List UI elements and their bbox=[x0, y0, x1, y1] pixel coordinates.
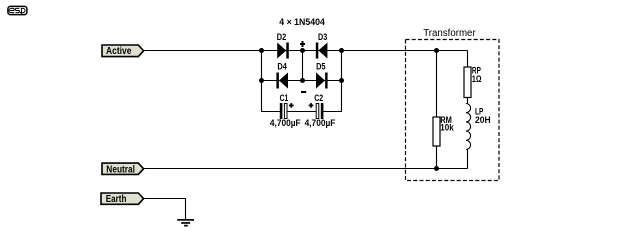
junction row2-right (D5 cathode) bbox=[339, 78, 344, 83]
wire mid vertical bbox=[302, 51, 304, 81]
junction RM top (active rail) bbox=[434, 48, 439, 53]
diode D3 bbox=[316, 32, 328, 59]
svg-text:Neutral: Neutral bbox=[106, 164, 135, 175]
diode D5 bbox=[316, 62, 328, 89]
transformer dashed box bbox=[406, 40, 500, 181]
node minus bbox=[301, 91, 306, 93]
svg-text:Earth: Earth bbox=[106, 194, 127, 205]
inductor LP bbox=[466, 98, 491, 169]
svg-text:D4: D4 bbox=[277, 62, 287, 73]
svg-text:4,700µF: 4,700µF bbox=[305, 118, 336, 129]
svg-text:Transformer: Transformer bbox=[423, 28, 476, 39]
capacitor C2 bbox=[305, 93, 336, 129]
svg-text:C2: C2 bbox=[314, 93, 323, 104]
wire left vertical bbox=[262, 51, 281, 112]
wire earth bbox=[144, 199, 186, 220]
wire cap middle bbox=[287, 111, 316, 113]
ESP logo bbox=[8, 6, 27, 14]
resistor RM bbox=[433, 51, 454, 169]
diode D4 bbox=[276, 62, 288, 89]
diode D2 bbox=[277, 32, 289, 59]
wire bridge row2 bbox=[262, 80, 342, 82]
ground bbox=[177, 219, 194, 227]
wire right vertical bbox=[323, 51, 342, 112]
wire neutral bbox=[144, 168, 468, 170]
svg-text:D3: D3 bbox=[318, 32, 327, 43]
junction top-right (D3 anode) bbox=[339, 48, 344, 53]
svg-text:4 × 1N5404: 4 × 1N5404 bbox=[279, 17, 325, 28]
junction top-left (D2 anode) bbox=[259, 48, 264, 53]
svg-text:D5: D5 bbox=[316, 62, 326, 73]
junction node - (D4/D5 anodes) bbox=[300, 78, 305, 83]
junction row2-left (D4 cathode) bbox=[259, 78, 264, 83]
tag Active bbox=[102, 45, 144, 57]
svg-text:C1: C1 bbox=[280, 93, 289, 104]
tag Neutral bbox=[102, 163, 144, 175]
svg-text:4,700µF: 4,700µF bbox=[270, 118, 301, 129]
junction node + (D2/D3 cathodes) bbox=[300, 48, 305, 53]
svg-text:1Ω: 1Ω bbox=[472, 74, 482, 85]
svg-text:10k: 10k bbox=[440, 123, 454, 134]
tag Earth bbox=[101, 193, 144, 205]
junction RM bottom (neutral rail) bbox=[434, 166, 439, 171]
capacitor C1 bbox=[270, 93, 301, 129]
resistor RP bbox=[464, 51, 482, 98]
wire active main bbox=[144, 50, 468, 52]
svg-text:Active: Active bbox=[106, 46, 132, 57]
svg-text:D2: D2 bbox=[277, 32, 286, 43]
svg-text:20H: 20H bbox=[475, 115, 491, 126]
node plus bbox=[300, 41, 305, 47]
